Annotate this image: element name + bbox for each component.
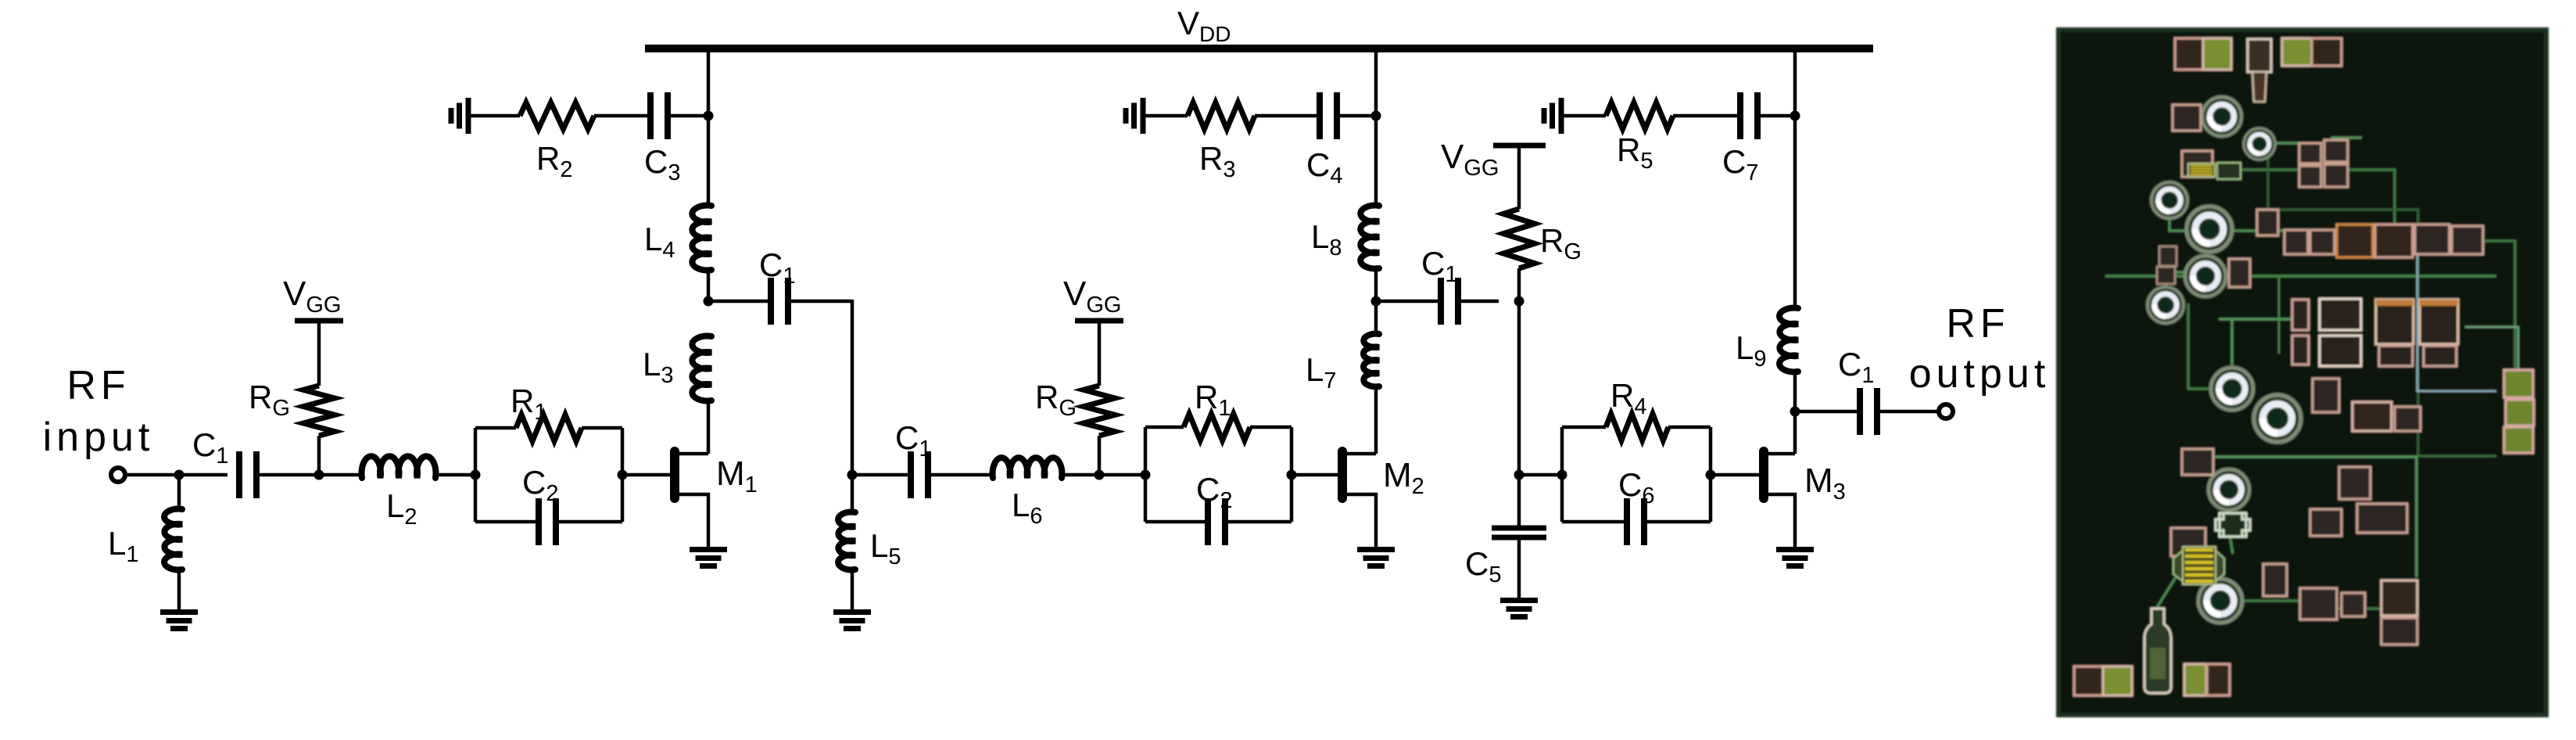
wire L6 to VGG2 node: [1062, 473, 1145, 477]
capacitor central cluster right: [2376, 300, 2413, 344]
wire L8 up to bias node: [1374, 116, 1378, 206]
interdigitated capacitor large: [2173, 548, 2185, 583]
wire RG to signal node: [317, 436, 321, 475]
R1C2 box left edge stage2: [1144, 427, 1148, 522]
capacitor beside spiral E: [2229, 259, 2250, 287]
wire long trace upper right: [2268, 155, 2418, 456]
node VGG1 tap: [314, 470, 324, 480]
capacitor right of spiral I: [2352, 402, 2391, 431]
wire box bottom left stage2: [1145, 520, 1208, 524]
wire interstage1 to L5: [851, 475, 854, 512]
wire VGG3 bar down to RG: [1517, 145, 1521, 209]
svg-text:output: output: [1909, 351, 2051, 397]
wire trace mid right vertical: [2417, 231, 2496, 391]
node stage2 bias junction: [1371, 111, 1381, 121]
RF output terminal: [1939, 404, 1953, 418]
wire box bottom left stage3: [1562, 520, 1627, 524]
node L1 tap: [174, 470, 185, 480]
inductor L1: [164, 509, 182, 570]
capacitor upper right pair B: [2324, 140, 2348, 162]
resistor R1 stage1: [516, 415, 582, 441]
capacitor block mid left lower: [2182, 449, 2213, 475]
capacitor bottom cluster 2: [2381, 580, 2417, 616]
wire L4 to mid node: [707, 270, 711, 301]
node RF output tap: [1790, 407, 1800, 417]
spiral inductor C: [2151, 182, 2187, 218]
svg-text:RF: RF: [1946, 301, 2009, 347]
pad top left dark: [2175, 38, 2203, 70]
wire box to M1 gate: [622, 473, 670, 477]
wire C1 to corner: [788, 300, 852, 304]
wire box bottom right stage2: [1225, 520, 1292, 524]
capacitor C2 stage1: [539, 498, 556, 545]
wire L5 to ground: [851, 569, 854, 609]
node R1C2 box right stage1: [618, 470, 628, 480]
resistor RG stage1: [303, 386, 335, 436]
wire L9 to bias node stage3: [1793, 116, 1797, 308]
capacitor C4: [1320, 92, 1337, 139]
wire node to C5: [1517, 475, 1521, 528]
pad bottom mid green pair: [2184, 664, 2206, 695]
capacitor C1 coupling stage3: [1441, 278, 1458, 325]
capacitor block left column 1: [2182, 151, 2212, 177]
wire ground to R2: [468, 114, 520, 118]
spiral inductor I: [2254, 395, 2301, 442]
wire trace lower long horizontal: [2211, 457, 2417, 577]
ground below M3: [1776, 550, 1814, 566]
M2 source tap: [1347, 494, 1376, 547]
M3 source tap: [1768, 494, 1795, 547]
capacitor C1 output: [1860, 388, 1877, 435]
capacitor below spiral H: [2313, 379, 2339, 412]
wire stage2 column to rail: [1374, 48, 1378, 116]
die micrograph photo: [2058, 30, 2546, 715]
wire C7 to node: [1757, 114, 1795, 118]
capacitor C7: [1740, 92, 1757, 139]
svg-text:RF: RF: [66, 363, 130, 408]
spiral inductor K: [2198, 579, 2242, 623]
wire stage1 column to L4: [707, 116, 711, 206]
inductor L4: [692, 206, 711, 271]
wire trace center: [2219, 318, 2293, 321]
ground at R3: [1126, 98, 1143, 134]
pad top bottle structure: [2248, 39, 2271, 72]
VDD rail: [645, 45, 1873, 52]
wire metal trace top right loop: [2254, 138, 2362, 143]
wire node up to L9: [1793, 372, 1797, 411]
wire C1 to VGG3 column: [1458, 300, 1499, 304]
wire R2 to C3: [594, 114, 650, 118]
alignment cross structure: [2216, 513, 2250, 537]
node R1C2 box left stage2: [1141, 470, 1151, 480]
interdigitated capacitor small top: [2188, 163, 2215, 177]
wire box to M2 gate: [1292, 473, 1338, 477]
capacitor C3: [650, 92, 668, 139]
M1 source tap: [679, 494, 708, 547]
wire stage2 mid to C1 coupling: [1376, 300, 1441, 304]
wire L7 to mid node stage2: [1374, 301, 1378, 334]
wire box top right stage2: [1250, 426, 1292, 429]
node R1C2 box left stage1: [471, 470, 481, 480]
inductor L8: [1360, 206, 1379, 269]
resistor RG stage2: [1084, 386, 1115, 436]
capacitor C5: [1492, 528, 1546, 537]
spiral inductor B: [2244, 128, 2275, 160]
resistor R4: [1606, 414, 1668, 440]
capacitor left lower: [2171, 528, 2205, 556]
transistor M2: [1338, 447, 1347, 503]
wire C1 to VGG node: [256, 473, 319, 477]
wire node to C1: [179, 473, 228, 477]
node stage3 bias junction: [1790, 111, 1800, 121]
wire RG2 to signal node: [1098, 436, 1102, 475]
spiral inductor J: [2209, 469, 2249, 510]
wire VDD to stage1 column: [707, 48, 711, 116]
wire L3 to M1 drain: [707, 401, 711, 454]
right edge pads column: [2504, 370, 2533, 397]
wire box top left stage3: [1562, 426, 1606, 429]
M3 drain tap: [1768, 452, 1795, 456]
resistor RG stage3: [1503, 209, 1535, 268]
capacitor C1 input: [239, 451, 256, 498]
capacitor right of spiral K: [2263, 564, 2287, 596]
capacitor row mid 2 orange: [2337, 225, 2373, 257]
inductor L3: [692, 336, 711, 401]
wire L8 to mid node: [1374, 268, 1378, 301]
capacitor C2 stage2: [1208, 498, 1225, 545]
wire RG3 to mid node: [1517, 268, 1521, 301]
wire C5 to ground: [1517, 537, 1521, 598]
pad bottom left green: [2103, 666, 2132, 695]
wire corner down to signal row: [851, 300, 854, 475]
capacitor mid cluster lower 1: [2339, 467, 2370, 499]
capacitor row mid 1: [2284, 230, 2308, 254]
M2 drain tap: [1347, 452, 1376, 456]
inductor L7: [1363, 334, 1379, 387]
capacitor bottom cluster 1: [2300, 588, 2337, 620]
wire trace frame horizontal: [2105, 275, 2496, 278]
inductor L2: [362, 456, 436, 478]
R1C2 box left edge stage1: [474, 428, 478, 522]
die micrograph background: [2058, 30, 2546, 715]
node R4C6 box right: [1706, 470, 1716, 480]
pad top right dark: [2312, 38, 2341, 66]
wire box top left stage1: [475, 426, 516, 430]
VGG supply bar stage2: [1075, 318, 1123, 324]
ground below C5: [1500, 601, 1538, 617]
resistor R5: [1606, 102, 1673, 129]
pad top left green: [2203, 38, 2231, 70]
node interstage1: [847, 470, 858, 480]
wire VGG2 bar down to RG: [1098, 321, 1102, 386]
node R4C6 box left: [1557, 470, 1567, 480]
VGG supply bar stage3: [1493, 143, 1546, 149]
wire C1 to output terminal: [1877, 410, 1938, 414]
small pads left mid: [2159, 246, 2177, 266]
node stage1 cascode mid: [704, 296, 714, 307]
wire stage3 column to rail: [1793, 48, 1797, 116]
wire R5 to C7: [1673, 114, 1740, 118]
inductor L9: [1779, 308, 1798, 372]
ground below L5: [833, 612, 871, 629]
wire M2 drain to L7: [1374, 386, 1378, 454]
wire L1 node down: [177, 475, 181, 509]
ground below L1: [160, 612, 198, 629]
spiral inductor H: [2211, 368, 2253, 410]
VGG supply bar stage1: [295, 318, 343, 324]
wire ground to R3: [1143, 114, 1188, 118]
wire M3 drain to output node: [1793, 411, 1797, 454]
spiral inductor D: [2187, 207, 2232, 252]
wire mid node to C1 coupling: [708, 300, 770, 304]
pad top right green: [2282, 38, 2312, 66]
capacitor C6: [1627, 498, 1644, 545]
wire node to L2: [319, 473, 362, 477]
capacitor block mid small: [2257, 210, 2278, 235]
transistor M3: [1759, 447, 1768, 503]
capacitor mid cluster lower 2: [2310, 509, 2341, 536]
capacitor upper right pair A: [2299, 143, 2321, 163]
node stage3 gate junction: [1514, 470, 1524, 480]
wire box bottom left stage1: [475, 520, 539, 524]
resistor R3: [1188, 102, 1255, 129]
wire C1 to L6: [928, 473, 993, 477]
spiral inductor E: [2185, 256, 2226, 296]
bottle flask structure bottom: [2144, 609, 2171, 693]
wire box top right stage1: [582, 426, 622, 430]
node VGG3 mid tap: [1514, 296, 1524, 307]
wire C3 to node: [668, 114, 708, 118]
node stage1 bias junction: [704, 111, 714, 121]
M1 drain tap: [679, 452, 708, 456]
capacitor central cluster left: [2292, 300, 2309, 330]
resistor R2: [520, 102, 594, 129]
wire box bottom right stage1: [556, 520, 622, 524]
ground below M2: [1357, 550, 1395, 566]
spiral inductor A: [2202, 97, 2241, 136]
node stage2 cascode mid: [1371, 296, 1381, 307]
transistor M1: [670, 447, 679, 503]
wire gate node to R4C6 box: [1519, 473, 1562, 477]
pad bottom left dark: [2074, 666, 2103, 695]
RF input terminal: [111, 468, 125, 482]
wire L1 to ground: [177, 569, 181, 609]
wire R3 to C4: [1255, 114, 1320, 118]
wire L2 to R1C2 box: [435, 473, 475, 477]
R1C2 box right edge stage2: [1290, 427, 1294, 522]
R1C2 box right edge stage1: [621, 428, 625, 522]
wire VGG bar down to RG: [317, 321, 321, 386]
R4C6 box right edge: [1709, 427, 1713, 522]
wire ground to R5: [1561, 114, 1606, 118]
svg-text:input: input: [43, 415, 155, 460]
wire trace spiral row mid: [2169, 200, 2290, 231]
spiral inductor F: [2148, 287, 2184, 323]
capacitor C1 stage1 coupling: [771, 278, 788, 325]
wire output node to C1 output: [1795, 410, 1861, 414]
node R1C2 box right stage2: [1287, 470, 1297, 480]
R4C6 box left edge: [1560, 427, 1564, 522]
capacitor C1 series stage2: [911, 451, 928, 498]
wire interstage1 to C1 series: [852, 473, 911, 477]
ground at R2: [451, 98, 468, 134]
wire box to M3 gate: [1711, 473, 1759, 477]
resistor R1 stage2: [1184, 414, 1250, 440]
ground at R5: [1544, 98, 1561, 134]
wire box top left stage2: [1145, 426, 1184, 429]
node VGG2 tap: [1095, 470, 1105, 480]
transistor block small: [2217, 163, 2241, 179]
wire input to L1 node: [125, 473, 179, 477]
inductor L5: [838, 512, 855, 570]
wire box top right stage3: [1668, 426, 1711, 429]
wire VGG3 column down to gate node: [1517, 301, 1521, 475]
capacitor row mid 3: [2415, 225, 2449, 254]
capacitor block beside spiral A: [2173, 105, 2201, 131]
wire trace right pads: [2465, 327, 2518, 383]
wire C4 to node: [1337, 114, 1376, 118]
wire trace bottom: [2156, 577, 2176, 609]
ground below M1: [690, 550, 727, 566]
inductor L6: [993, 458, 1062, 478]
wire box bottom right stage3: [1644, 520, 1711, 524]
